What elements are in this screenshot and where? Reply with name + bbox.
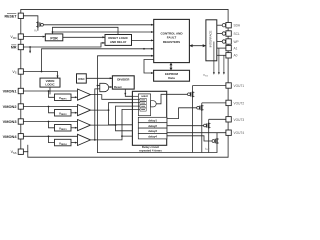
wire comparator 4 output to delay [91,109,138,139]
svg-text:delay1: delay1 [148,118,157,122]
wire MR branch down arrow [29,47,31,52]
delay select inner box [138,94,150,116]
delay select cells [140,98,146,111]
wire comparator 2 branch to delay2 row [109,110,139,125]
svg-text:delay4: delay4 [148,135,157,139]
svg-text:REGISTERS: REGISTERS [163,40,180,44]
wire vth3 to comparator 3 minus [71,127,77,129]
serial interface block U6 [206,20,217,61]
wire POR top to reset logic top [53,27,119,34]
wire gate top input stub [98,85,100,87]
delay2 row [138,123,167,128]
wire D control to gate and source rail [98,56,154,153]
comparator U11 [78,89,91,100]
svg-text:VMON1: VMON1 [3,89,18,94]
wire control to interface double arrow [189,45,206,47]
wire VMON3 tap to vth3 [49,122,55,128]
wire control to eeprom vertical double arrow [170,63,172,71]
threshold dac VTH4 [55,139,72,146]
svg-text:Data: Data [168,76,175,80]
svg-text:DIVIDER: DIVIDER [117,77,130,81]
wire OSC to divider [86,77,112,79]
wire control to eeprom loop [144,60,154,74]
wire divider to delay block [125,89,138,96]
pin MR [18,44,23,49]
wire comparator 3 branch to delay3 row [116,125,139,131]
wire interface to A1 [217,47,226,49]
wire vth4 to comparator 4 minus [71,142,77,144]
wire delay2 row output to fet3 gate [167,125,204,127]
vmon logic block U7 [40,78,60,87]
wire VS branch to control registers [42,49,154,72]
svg-text:delay2: delay2 [148,124,157,128]
control and fault registers block U4 [154,19,190,62]
svg-text:INTERFACE: INTERFACE [209,30,213,47]
wire reset logic output to control registers [132,39,154,41]
delay3 row [138,128,167,133]
pin VMON1 [18,88,23,93]
fet M4 symbol [212,138,219,144]
pin A1 [226,45,231,50]
wire VMON4 tap to vth4 [49,136,55,142]
wire gate bottom input from comp4 [95,89,100,140]
eeprom block U5 [154,70,190,81]
wire delay4 row output staircase to fet4 gate [167,136,212,141]
wire POR top to control registers [53,31,154,33]
pin VMON4 [18,134,23,139]
wire Q1 gate to control registers [43,24,153,26]
svg-text:POR: POR [50,36,58,40]
svg-text:select: select [141,95,148,98]
svg-text:WP: WP [234,40,239,44]
pin VOUT2 [226,100,231,105]
wire WP pulldown [214,42,224,74]
and gate U9 divider reset [100,83,109,91]
svg-text:VOUT4: VOUT4 [234,131,245,135]
svg-text:AND DELAY: AND DELAY [110,40,127,44]
svg-text:repeated 4 times: repeated 4 times [139,148,162,152]
svg-text:A0: A0 [234,54,238,58]
threshold dac VTH3 [55,125,72,132]
wire top boundary rail [21,9,228,22]
pin VMON3 [18,119,23,124]
transistor Q1 channel [37,28,39,31]
divider block U10 [112,76,134,89]
wire VDD pin to POR [23,36,45,38]
svg-text:VMON4: VMON4 [3,134,18,139]
delay1 row [138,117,167,122]
wire RESET pin to transistor drain [23,16,38,22]
wire vmon logic bottom stub [49,87,51,94]
pin VMON2 [18,104,23,109]
fet M4 channel and drain to VOUT4 [167,133,226,153]
svg-text:SCL: SCL [234,32,240,36]
svg-text:VMON2: VMON2 [3,104,18,109]
pin RESET [18,13,23,18]
wire interface to WP with bubble [217,41,222,43]
wire comparator 1 output to delay [91,95,138,100]
POR block U2 [45,34,63,41]
threshold dac VTH2 [55,110,72,117]
transistor Q1 open-drain on RESET [36,22,43,28]
svg-text:Reset: Reset [114,85,122,89]
comparator U13 [78,120,91,131]
wire VMON2 to comparator 2 [23,106,77,108]
svg-text:A1: A1 [234,47,238,51]
pin SDA [226,23,231,28]
svg-text:delay3: delay3 [148,129,157,133]
fet M3 channel and drain to VOUT3 [209,119,226,152]
wire VMON4 to comparator 4 [23,135,77,137]
wire delay1 row output staircase to fet2 gate [167,108,197,119]
wire comparator 3 output to delay [91,106,138,125]
pin VDD [18,34,23,39]
wire VMON1 tap to vth1 [49,91,55,97]
reset logic and delay block U3 [105,35,132,46]
fet M2 symbol [197,105,204,111]
svg-text:SDA: SDA [234,24,241,28]
pin SCL [226,31,231,36]
svg-text:VOUT1: VOUT1 [234,84,245,88]
pin VOUT1 [226,83,231,88]
wire vth1 to comparator 1 minus [71,96,77,98]
wire source rail [98,152,218,154]
wire VMON1 to comparator 1 [23,90,77,92]
wire VMON2 tap to vth2 [49,107,55,113]
wire POR output to reset logic [63,36,105,38]
wire delay1 gate output up [157,94,188,104]
pin VOUT3 [226,117,231,122]
svg-text:VMON3: VMON3 [3,119,18,124]
pin VOUT4 [226,130,231,135]
delay circuit outer box U15 [132,91,166,145]
wire VS pin to vmon logic [23,72,57,78]
svg-text:RESET: RESET [5,14,18,18]
pin VSS [18,149,23,154]
svg-text:VOUT3: VOUT3 [234,118,245,122]
svg-text:VS: VS [12,70,16,75]
wire right boundary vertical [227,28,229,157]
svg-text:VOUT2: VOUT2 [234,101,245,105]
wire interface to A0 [217,54,226,56]
pin VS [18,69,23,74]
svg-text:LOGIC: LOGIC [45,83,55,87]
wire bottom boundary rail [23,152,228,158]
wire MR pin to reset logic [23,43,104,47]
comparator U12 [78,105,91,116]
fet M2 channel and drain to VOUT2 [202,103,226,153]
pin WP [226,39,231,44]
oscillator block U8 [77,74,87,83]
delay4 row [138,134,167,139]
threshold dac VTH1 [55,94,72,101]
comparator U14 [78,134,91,145]
wire interface to SCL with bubble [217,33,222,35]
wire VMON3 to comparator 3 [23,121,77,123]
fet M3 symbol [204,123,211,129]
fet M1 symbol [188,91,195,97]
wire comparator 2 output to delay [91,103,138,110]
wire and gate to divider reset [109,86,112,88]
svg-text:OSC: OSC [78,77,85,81]
wire interface to SDA with bubble [217,24,226,56]
wire vth2 to comparator 2 minus [71,112,77,114]
wire left boundary vertical [20,13,22,154]
wire comparator 4 branch to delay4 row [122,135,138,137]
wire vss jog up [27,145,29,152]
wire delay input stubs [132,96,140,109]
pin A0 [226,53,231,58]
fet M1 channel and drain to VOUT1 [193,86,226,153]
svg-text:MR: MR [11,46,17,50]
and gate U16 in delay1 [151,101,157,107]
